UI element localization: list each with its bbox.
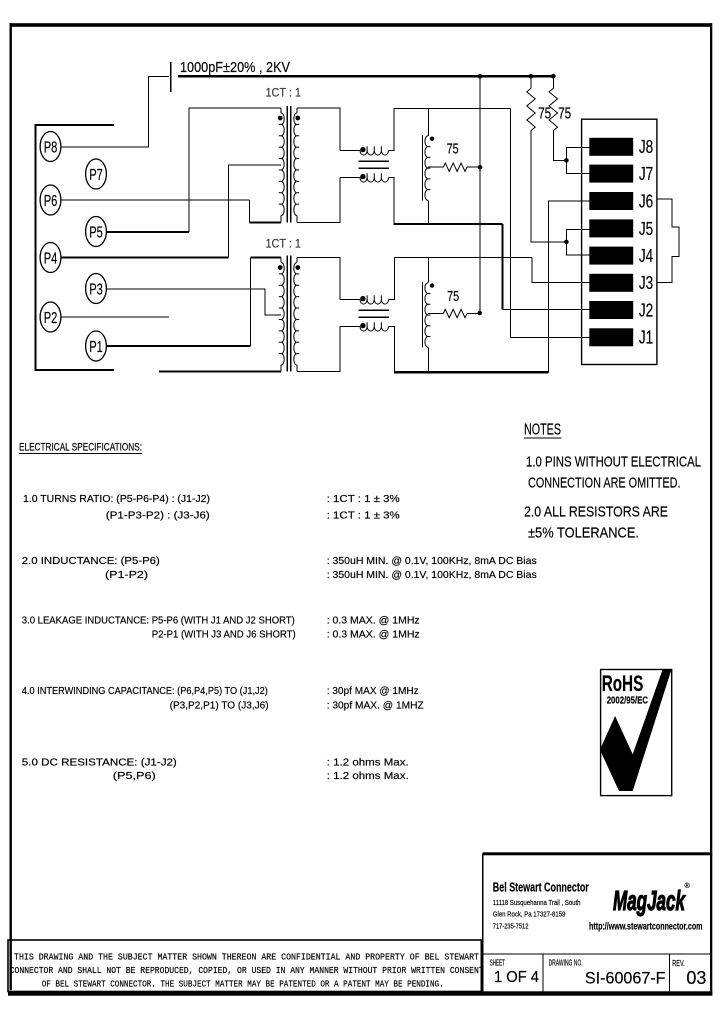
wire node A to J1 (511, 108, 590, 337)
svg-text:: 1CT : 1 ± 3%: : 1CT : 1 ± 3% (327, 510, 400, 522)
node J5/J4 junction (564, 240, 569, 245)
jack pin J4 (589, 247, 633, 265)
node R2/vertical-bus junction (477, 311, 482, 316)
svg-text:±5% TOLERANCE.: ±5% TOLERANCE. (528, 525, 639, 542)
wire P6 horizontal (61, 199, 249, 201)
svg-text:(P3,P2,P1) TO (J3,J6): (P3,P2,P1) TO (J3,J6) (170, 700, 269, 712)
autotransformer T2A winding (425, 136, 428, 201)
svg-text:1 OF 4: 1 OF 4 (494, 969, 539, 986)
jack pin J2 (589, 301, 633, 319)
svg-text:(P1-P3-P2) : (J3-J6): (P1-P3-P2) : (J3-J6) (106, 510, 210, 522)
RoHS logo box (601, 670, 672, 796)
svg-text:1CT : 1: 1CT : 1 (266, 237, 302, 251)
cap bus wire (top rail) (178, 75, 553, 77)
plug pin P6 (40, 185, 61, 215)
jack latch profile (657, 199, 679, 283)
title block frame (483, 852, 713, 855)
svg-text:RoHS: RoHS (602, 671, 644, 696)
L2 bottom coil polarity dot (360, 323, 365, 328)
node cap-bus/R6 tap (551, 74, 556, 79)
node cap-bus/R5 tap (529, 74, 534, 79)
wire P1 horizontal (107, 345, 251, 347)
svg-text:®: ® (685, 882, 691, 890)
wire T2B center tap (428, 313, 443, 315)
wire P4 riser to T1 primary center tap (229, 165, 282, 258)
svg-text:03: 03 (686, 968, 706, 988)
svg-text:4.0 INTERWINDING CAPACITANCE:: 4.0 INTERWINDING CAPACITANCE: (P6,P4,P5)… (22, 685, 268, 697)
svg-text:75: 75 (558, 106, 571, 123)
RoHS checkmark (600, 670, 672, 791)
resistor R1 75ohm (443, 163, 467, 171)
plug pin P3 (86, 274, 107, 304)
disclaimer box (8, 940, 481, 992)
svg-text:OF BEL STEWART CONNECTOR. THE: OF BEL STEWART CONNECTOR. THE SUBJECT MA… (42, 979, 444, 990)
wire T1 primary bottom (249, 222, 281, 224)
svg-text:J6: J6 (639, 191, 653, 211)
wire T1 secondary bottom (297, 178, 340, 223)
svg-text:: 1CT : 1 ± 3%: : 1CT : 1 ± 3% (327, 493, 400, 505)
wire P3 horizontal to T2 center tap (107, 289, 282, 315)
svg-text:CONNECTION ARE OMITTED.: CONNECTION ARE OMITTED. (528, 475, 681, 492)
T2A polarity dot (430, 137, 434, 141)
svg-text:P2-P1 (WITH J3 AND J6 SHORT): P2-P1 (WITH J3 AND J6 SHORT) (152, 629, 296, 641)
plug pin P7 (86, 159, 107, 189)
T2 primary polarity dot (278, 265, 283, 270)
svg-text:J4: J4 (639, 246, 653, 266)
svg-text:: 30pf MAX @ 1MHz: : 30pf MAX @ 1MHz (327, 685, 419, 697)
wire P1 riser to T2 primary top (250, 258, 252, 347)
jack pin J3 (589, 274, 633, 292)
wire P4 horizontal (61, 257, 229, 259)
jack pin J6 (589, 192, 633, 210)
wire T1 secondary top (297, 108, 340, 151)
svg-text:: 0.3 MAX. @ 1MHz: : 0.3 MAX. @ 1MHz (327, 615, 420, 627)
rail B (top channel lower, thick) (394, 223, 503, 225)
wire node C to J3 (532, 258, 589, 283)
wire tap to T2B top (427, 258, 429, 283)
choke L2 core (359, 309, 390, 311)
svg-text:SI-60067-F: SI-60067-F (585, 969, 666, 988)
transformer T2 core (286, 256, 288, 372)
wire R6 to J8/J7 tie (553, 131, 566, 161)
wire P8 to capacitor (61, 77, 169, 147)
svg-text:REV.: REV. (672, 959, 684, 968)
wire rail B to J2 (thick riser) (502, 224, 504, 310)
svg-text:75: 75 (447, 289, 459, 305)
svg-text:J5: J5 (639, 219, 653, 239)
svg-text:P8: P8 (44, 139, 58, 156)
wire L1 top out riser (389, 108, 394, 150)
plug pin P4 (40, 243, 61, 273)
jack connector body (582, 119, 657, 364)
L1 top coil polarity dot (360, 147, 365, 152)
choke L2 bottom coil (360, 327, 389, 332)
choke L1 top coil (360, 151, 389, 156)
sheet border frame (10, 23, 713, 27)
T1 secondary polarity dot (295, 116, 300, 121)
resistor R5 75ohm (527, 88, 535, 130)
svg-text:P5: P5 (89, 224, 103, 241)
transformer T2 secondary winding (294, 263, 297, 366)
wire T2 primary top (251, 257, 282, 259)
choke L2 top coil (360, 300, 389, 305)
svg-text:J8: J8 (639, 137, 653, 157)
wire L2 top out riser (389, 258, 395, 300)
svg-text:: 1.2 ohms Max.: : 1.2 ohms Max. (327, 770, 409, 782)
node cap-bus/R3 tap (478, 74, 483, 79)
svg-text:75: 75 (447, 142, 459, 158)
svg-text:CONNECTOR AND SHALL NOT BE REP: CONNECTOR AND SHALL NOT BE REPRODUCED, C… (10, 965, 484, 976)
resistor R6 75ohm (549, 88, 557, 130)
wire J5/J4 tie (566, 229, 589, 255)
svg-text:1000pF±20% , 2KV: 1000pF±20% , 2KV (180, 59, 290, 76)
svg-text:: 1.2 ohms Max.: : 1.2 ohms Max. (327, 757, 409, 769)
svg-text:Bel Stewart Connector: Bel Stewart Connector (493, 880, 589, 895)
autotransformer T2B core bar (421, 282, 423, 347)
node J8/J7 junction (564, 158, 569, 163)
svg-text:2.0 ALL RESISTORS ARE: 2.0 ALL RESISTORS ARE (524, 504, 668, 521)
wire P6 riser (248, 200, 250, 223)
wire J8/J7 tie (566, 147, 589, 173)
wire bottom-channel node C rail (394, 257, 532, 259)
svg-text:2002/95/EC: 2002/95/EC (607, 695, 649, 707)
svg-text:http://www.stewartconnector.co: http://www.stewartconnector.com (589, 921, 703, 933)
wire P2 horizontal (open) (61, 316, 169, 318)
wire T2A bottom tap (427, 200, 429, 224)
wire T2 primary bottom (open left) (159, 371, 281, 373)
wire tap to T2A top (427, 108, 429, 135)
transformer T1 primary winding (281, 113, 284, 216)
vertical bus cap to R1/R2 (479, 76, 481, 313)
svg-text:P2: P2 (44, 310, 58, 327)
svg-text:11118 Susquehanna Trail , Sout: 11118 Susquehanna Trail , South (493, 898, 581, 907)
svg-text:5.0 DC RESISTANCE: (J1-J2): 5.0 DC RESISTANCE: (J1-J2) (22, 757, 177, 769)
choke L1 bottom coil (360, 178, 389, 183)
wire J2 stub (503, 309, 590, 311)
svg-text:THIS DRAWING AND THE SUBJECT M: THIS DRAWING AND THE SUBJECT MATTER SHOW… (14, 952, 479, 963)
svg-text:717-235-7512: 717-235-7512 (493, 922, 529, 931)
svg-text:MagJack: MagJack (613, 885, 686, 916)
autotransformer T2A core bar (421, 135, 423, 200)
wire P5 riser to T1 primary top (189, 108, 281, 232)
transformer T2 primary winding (281, 263, 284, 366)
svg-text:P7: P7 (89, 167, 103, 184)
svg-text:: 30pf MAX. @ 1MHZ: : 30pf MAX. @ 1MHZ (327, 700, 425, 712)
svg-text:P1: P1 (89, 339, 103, 356)
wire T2 secondary top (297, 258, 340, 300)
svg-text:: 0.3 MAX. @ 1MHz: : 0.3 MAX. @ 1MHz (327, 629, 420, 641)
svg-text:Glen Rock, Pa 17327-8159: Glen Rock, Pa 17327-8159 (493, 910, 566, 919)
node R1/vertical-bus junction (478, 165, 483, 170)
svg-text:3.0 LEAKAGE INDUCTANCE: P5-P6: 3.0 LEAKAGE INDUCTANCE: P5-P6 (WITH J1 A… (22, 615, 295, 627)
wire R5 to J5/J4 tie (531, 131, 566, 242)
wire L1 bottom out riser (389, 178, 394, 223)
svg-text:(P1-P2): (P1-P2) (105, 569, 148, 581)
svg-text:ELECTRICAL SPECIFICATIONS:: ELECTRICAL SPECIFICATIONS: (19, 442, 142, 454)
P-side connector box (36, 125, 115, 370)
wire top-channel node A rail (394, 107, 511, 109)
svg-text:J1: J1 (639, 328, 653, 348)
wire T2A center tap (428, 166, 443, 168)
jack pin J8 (589, 138, 633, 156)
rail D (bottom channel lower, thick) (394, 371, 549, 373)
svg-text:DRAWING NO.: DRAWING NO. (549, 959, 583, 968)
capacitor C1 plate (170, 62, 172, 92)
wire J6 stub and riser (549, 201, 590, 372)
svg-text:NOTES: NOTES (524, 422, 561, 439)
choke L1 core (359, 160, 390, 162)
wire R1 to bus (467, 166, 480, 168)
resistor R2 75ohm (443, 309, 467, 317)
svg-text:: 350uH MIN. @ 0.1V, 100KHz, 8: : 350uH MIN. @ 0.1V, 100KHz, 8mA DC Bias (327, 569, 537, 581)
svg-text:J3: J3 (639, 273, 653, 293)
plug pin P2 (40, 302, 61, 332)
plug pin P5 (86, 217, 107, 247)
svg-text:: 350uH MIN. @ 0.1V, 100KHz, 8: : 350uH MIN. @ 0.1V, 100KHz, 8mA DC Bias (327, 555, 537, 567)
L2 top coil polarity dot (360, 296, 365, 301)
T2 secondary polarity dot (295, 265, 300, 270)
wire P5 horizontal (107, 231, 190, 233)
plug pin P1 (86, 331, 107, 361)
transformer T1 core (286, 106, 288, 223)
L1 bottom coil polarity dot (360, 174, 365, 179)
svg-text:1CT : 1: 1CT : 1 (266, 86, 302, 100)
T1 primary polarity dot (278, 116, 283, 121)
jack pin J5 (589, 219, 633, 237)
svg-text:SHEET: SHEET (490, 959, 505, 968)
T2B polarity dot (430, 283, 434, 287)
wire L2 bottom out riser (389, 327, 395, 373)
svg-text:1.0 TURNS RATIO: (P5-P6-P4) :: 1.0 TURNS RATIO: (P5-P6-P4) : (J1-J2) (23, 493, 210, 505)
transformer T1 secondary winding (294, 113, 297, 216)
svg-text:J7: J7 (639, 164, 653, 184)
svg-text:1.0 PINS WITHOUT ELECTRICAL: 1.0 PINS WITHOUT ELECTRICAL (526, 454, 701, 471)
plug pin P8 (40, 132, 61, 162)
jack pin J7 (589, 165, 633, 183)
wire R2 to bus (467, 313, 480, 315)
wire T2 secondary bottom (297, 327, 340, 372)
svg-text:P4: P4 (44, 250, 58, 267)
svg-text:P3: P3 (89, 281, 103, 298)
autotransformer T2B winding (425, 283, 428, 348)
jack pin J1 (589, 328, 633, 346)
svg-text:2.0 INDUCTANCE: (P5-P6): 2.0 INDUCTANCE: (P5-P6) (22, 555, 160, 567)
svg-text:(P5,P6): (P5,P6) (113, 770, 156, 782)
svg-text:J2: J2 (639, 300, 653, 320)
svg-text:P6: P6 (44, 193, 58, 210)
